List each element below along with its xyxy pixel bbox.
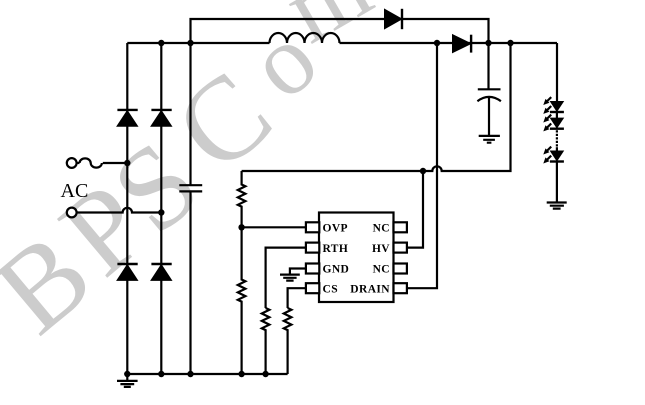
node AC bottom	[158, 209, 164, 215]
resistor R1	[238, 171, 246, 227]
wire OVP pin	[242, 226, 306, 228]
wire AC bottom with hop	[77, 208, 162, 213]
diode D2	[453, 35, 472, 53]
node rail-x437	[434, 40, 440, 46]
svg-text:NC: NC	[373, 264, 390, 276]
wire HV pin	[407, 171, 423, 248]
bridge diode BD3 (lower left)	[117, 264, 138, 280]
wire top bypass	[191, 19, 489, 43]
node rail bottom x265	[262, 371, 268, 377]
pin NC2 box	[394, 264, 407, 274]
capacitor C2 plates	[477, 89, 501, 101]
LED3	[543, 147, 564, 164]
IC U1 pin labels	[323, 223, 391, 296]
resistor R3	[262, 308, 270, 374]
wire LED string bottom	[556, 162, 558, 203]
wire LED link 1	[556, 112, 558, 118]
node rail-x161	[158, 40, 164, 46]
svg-text:NC: NC	[373, 223, 390, 235]
pin RTH box	[306, 243, 319, 253]
LED2	[543, 115, 564, 132]
resistor R2	[238, 227, 246, 374]
node rail bottom x127	[124, 371, 130, 377]
LED1	[543, 97, 564, 114]
wire main rail right	[340, 42, 558, 44]
svg-text:RTH: RTH	[323, 243, 349, 255]
svg-text:GND: GND	[323, 264, 350, 276]
node rail-x488	[485, 40, 491, 46]
wire cap leg x=190 upper	[189, 43, 191, 185]
wire bridge leg x=161	[160, 43, 162, 374]
wire LED dotted section	[556, 130, 558, 147]
wire CS pin	[288, 288, 306, 308]
svg-text:OVP: OVP	[323, 223, 348, 235]
capacitor C2 lower lead	[488, 98, 490, 135]
node AC top	[124, 160, 130, 166]
node rail bottom x161	[158, 371, 164, 377]
bridge diode BD1 (upper left)	[117, 110, 138, 126]
pin DRAIN box	[394, 283, 407, 293]
wire RTH pin	[266, 248, 306, 308]
node HV sense	[420, 168, 426, 174]
wire AC top to bridge	[103, 162, 128, 164]
wire GND pin	[290, 269, 306, 274]
svg-text:HV: HV	[372, 243, 390, 255]
wire bottom rail	[127, 373, 287, 375]
pin GND box	[306, 264, 319, 274]
resistor R4	[284, 308, 292, 374]
bridge diode BD4 (lower right)	[151, 264, 172, 280]
capacitor C2 lead	[487, 43, 489, 89]
pin CS box	[306, 283, 319, 293]
wire OVP sense y=171 with hop	[242, 43, 511, 171]
wire cap leg x=190 lower	[189, 191, 191, 374]
wire DRAIN pin	[407, 43, 437, 288]
wire AC top lead	[77, 162, 80, 164]
wire LED string top	[556, 43, 558, 102]
fuse F1 squiggle	[80, 158, 102, 167]
ground main stem	[126, 374, 128, 380]
ground C2 bars	[479, 136, 500, 143]
ground LED bars	[547, 203, 567, 209]
diode D1	[385, 9, 403, 29]
node rail bottom x241	[238, 371, 244, 377]
svg-text:CS: CS	[323, 284, 339, 296]
pin NC1 box	[394, 222, 407, 232]
inductor L1	[270, 33, 340, 43]
terminal AC bottom	[67, 208, 77, 218]
ground main bars	[117, 381, 138, 387]
terminal AC top	[67, 158, 77, 168]
bridge diode BD2 (upper right)	[151, 110, 172, 126]
node rail-x190	[187, 40, 193, 46]
IC U1 body	[306, 213, 407, 303]
watermark	[0, 0, 388, 358]
wire bridge leg x=127	[126, 43, 128, 374]
node OVP	[238, 224, 244, 230]
node rail-x510	[507, 40, 513, 46]
ground IC bars	[280, 275, 300, 281]
wire main rail left	[127, 42, 269, 44]
capacitor C1 plates	[179, 185, 202, 191]
svg-text:DRAIN: DRAIN	[350, 284, 390, 296]
pin HV box	[394, 243, 407, 253]
node rail bottom x190	[187, 371, 193, 377]
pin OVP box	[306, 222, 319, 232]
svg-text:AC: AC	[61, 180, 89, 202]
